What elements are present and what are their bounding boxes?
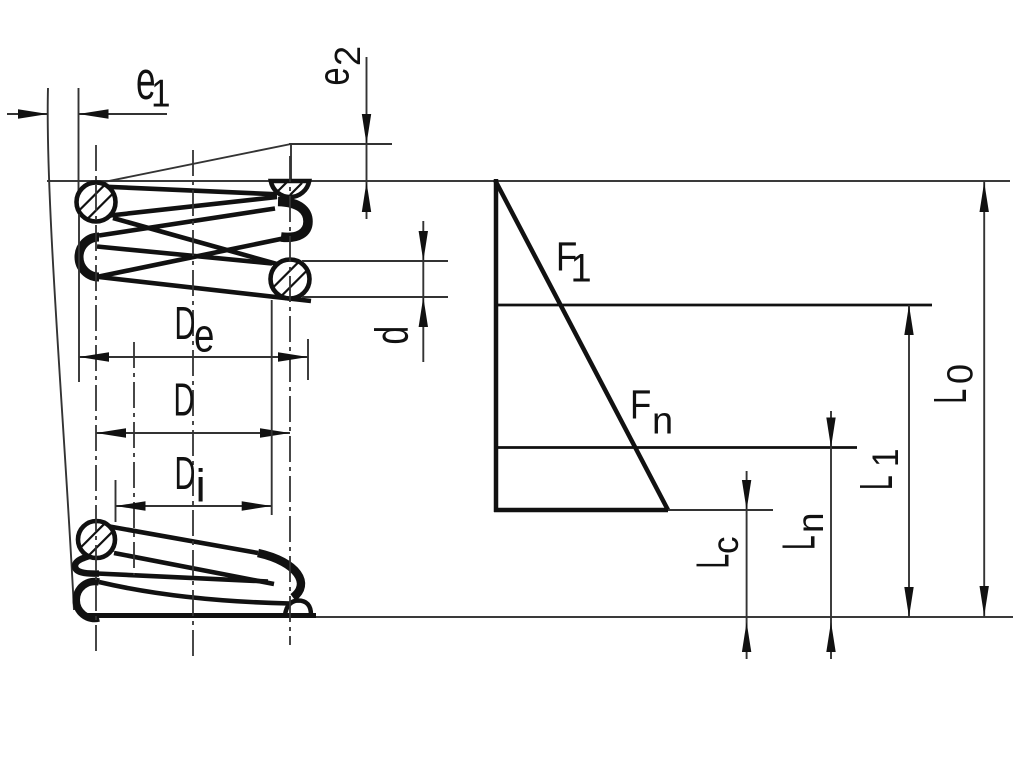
- Di dimension line: [116, 505, 272, 507]
- De extension line right: [307, 339, 309, 380]
- Ln dimension vertical line: [830, 411, 832, 659]
- spring coil strand T6: [99, 277, 311, 301]
- F1 level line: [497, 304, 932, 307]
- spring bottom end tip dome: [285, 601, 311, 616]
- e2 arrow pointing down: [362, 114, 371, 144]
- e1 arrow pointing left: [79, 109, 109, 118]
- De arrow right: [278, 352, 308, 361]
- spring coil strand T5a left bend top to end mass: [99, 209, 275, 236]
- spring small left turn bottom group: [75, 549, 113, 574]
- d arrow pointing down: [419, 231, 428, 261]
- e1 arrow left pointing right: [18, 109, 48, 118]
- spring right bend top group: [278, 202, 308, 238]
- svg-text:L: L: [850, 475, 902, 490]
- e1 vertical extension line: [78, 88, 80, 195]
- Lc level thin line: [668, 509, 773, 511]
- spring bottom-left coil cross-section circle: [78, 521, 115, 558]
- D dimension line: [96, 432, 290, 434]
- d dimension extension line top: [302, 260, 448, 262]
- svg-text:1: 1: [151, 71, 171, 115]
- svg-text:e: e: [310, 67, 359, 85]
- Lc arrow pointing down: [742, 480, 751, 510]
- spring ground bottom face: [84, 613, 316, 618]
- spring right coil cross-section circle: [271, 260, 310, 299]
- D arrow right: [260, 428, 290, 437]
- svg-text:c: c: [704, 536, 746, 554]
- e1 dimension line left part: [7, 113, 48, 115]
- svg-text:L: L: [773, 535, 825, 550]
- spring coil strand U1: [104, 526, 258, 554]
- Ln arrow pointing down: [826, 418, 835, 448]
- Di extension line left: [115, 480, 117, 522]
- spring top end wire cut half disc: [271, 181, 309, 197]
- svg-text:i: i: [196, 460, 206, 512]
- svg-text:0: 0: [940, 364, 981, 384]
- top reference line L0 plane: [47, 180, 1010, 182]
- force triangle hypotenuse: [495, 180, 668, 510]
- L0 arrow pointing down: [980, 586, 989, 616]
- e1 dimension line right part: [79, 113, 168, 115]
- Lc arrow pointing up: [742, 622, 751, 652]
- spring coil strand U3: [97, 574, 268, 582]
- d dimension extension line bottom: [302, 296, 448, 298]
- spring coil strand T5b right bend bottom to left bend bottom: [99, 235, 300, 277]
- e2 dimension vertical line: [366, 57, 368, 219]
- svg-text:D: D: [175, 448, 196, 499]
- e2 arrow pointing up: [362, 182, 371, 212]
- bottom reference line: [280, 616, 1013, 618]
- d dimension vertical line: [422, 221, 424, 362]
- force triangle vertical edge: [494, 179, 499, 512]
- L1 arrow pointing down: [904, 587, 913, 617]
- L0 dimension vertical line: [983, 181, 985, 617]
- spring coil strand T3: [113, 218, 284, 266]
- spring left bottom bend: [76, 582, 99, 619]
- svg-text:n: n: [652, 401, 673, 443]
- svg-text:2: 2: [327, 46, 368, 66]
- svg-text:1: 1: [865, 448, 906, 467]
- force triangle bottom edge: [494, 508, 668, 513]
- center line spring axis x=193: [192, 150, 194, 658]
- Di extension line right: [271, 300, 273, 515]
- spring coil strand T4: [97, 247, 272, 264]
- Fn level line: [497, 446, 857, 449]
- spring left bend top group: [79, 237, 99, 277]
- spring taper top edge V2: [99, 582, 290, 604]
- L1 dimension vertical line: [908, 305, 910, 617]
- d arrow pointing up: [419, 297, 428, 327]
- D arrow left: [96, 428, 126, 437]
- e2 vertical drop line: [290, 144, 292, 182]
- Di arrow left: [116, 501, 146, 510]
- svg-text:D: D: [174, 375, 195, 426]
- L1 arrow pointing up: [904, 305, 913, 335]
- e2 thin diagonal top face line: [94, 144, 291, 184]
- spring coil strand T1 top band upper edge: [100, 187, 277, 195]
- De dimension line: [79, 356, 308, 358]
- De arrow left: [79, 352, 109, 361]
- svg-text:n: n: [790, 512, 831, 533]
- e1 slanted tilt line: [48, 88, 74, 610]
- svg-text:L: L: [687, 554, 739, 569]
- center line x=134: [133, 342, 135, 575]
- svg-text:L: L: [924, 389, 976, 404]
- Ln arrow pointing up: [826, 622, 835, 652]
- svg-text:1: 1: [571, 247, 592, 291]
- center line right coil x=290: [289, 156, 291, 645]
- e2 horizontal extension line: [289, 143, 392, 145]
- svg-text:e: e: [194, 309, 214, 361]
- spring right bottom bend: [258, 553, 301, 598]
- center line left coil x=96: [95, 145, 97, 656]
- Di arrow right: [242, 501, 272, 510]
- spring top-left coil cross-section circle: [77, 183, 116, 222]
- spring coil strand T2 top band lower edge: [110, 197, 277, 216]
- Lc dimension vertical line: [746, 471, 748, 659]
- svg-text:D: D: [175, 298, 196, 349]
- svg-text:F: F: [630, 383, 651, 428]
- spring coil strand U4: [114, 553, 274, 584]
- L0 arrow pointing up: [980, 182, 989, 212]
- De extension line left: [78, 214, 80, 382]
- svg-text:d: d: [366, 326, 417, 345]
